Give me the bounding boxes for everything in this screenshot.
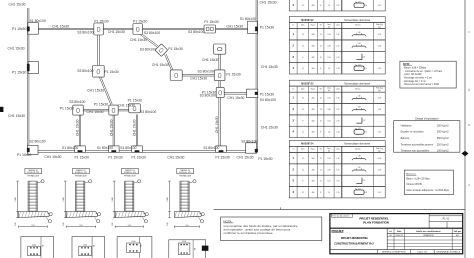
svg-text:FERRAILLAGE: FERRAILLAGE: [75, 175, 88, 178]
svg-text:S2 80x100: S2 80x100: [29, 139, 45, 143]
svg-text:1.90: 1.90: [327, 34, 330, 36]
svg-text:P1 15x30: P1 15x30: [260, 93, 274, 97]
svg-text:P1 15x30: P1 15x30: [60, 106, 74, 110]
svg-text:Nomenclature des barres: Nomenclature des barres: [344, 143, 371, 146]
svg-text:400: 400: [312, 34, 315, 36]
svg-text:2.00: 2.00: [79, 225, 82, 227]
svg-text:DESSINE A L'ECHELLE: DESSINE A L'ECHELLE: [437, 251, 461, 254]
svg-text:Espac.: Espac.: [311, 88, 316, 90]
svg-text:P1 15x30: P1 15x30: [12, 27, 26, 31]
svg-text:2.00: 2.00: [15, 222, 17, 225]
svg-text:0.70: 0.70: [336, 57, 339, 59]
svg-text:CH1 15x30: CH1 15x30: [130, 38, 147, 42]
svg-text:1.90: 1.90: [327, 98, 330, 100]
svg-text:Escalier et circulation: Escalier et circulation: [401, 131, 425, 134]
svg-text:0.18: 0.18: [378, 158, 381, 160]
svg-text:CH1 15x30: CH1 15x30: [152, 63, 169, 67]
svg-text:Poids (kg): Poids (kg): [376, 148, 383, 150]
svg-text:CH1 15x30: CH1 15x30: [133, 119, 137, 136]
svg-text:12: 12: [302, 45, 304, 47]
svg-text:Espac.: Espac.: [311, 149, 316, 151]
svg-text:Poids (kg): Poids (kg): [376, 24, 383, 26]
svg-text:1.20: 1.20: [358, 107, 361, 109]
svg-text:1.86: 1.86: [327, 45, 330, 47]
svg-text:8: 8: [320, 5, 321, 7]
svg-text:400: 400: [312, 57, 315, 59]
svg-text:P1 15x30: P1 15x30: [204, 20, 218, 24]
svg-text:12: 12: [320, 45, 322, 47]
svg-text:1.86: 1.86: [327, 109, 330, 111]
svg-text:Diam.: Diam.: [301, 88, 306, 90]
svg-text:400: 400: [312, 68, 315, 70]
svg-text:PLAN FONDATION: PLAN FONDATION: [363, 220, 390, 224]
svg-text:Acier a haute adherence : fe=4: Acier a haute adherence : fe=400 Mpa: [406, 189, 449, 192]
svg-text:Long.: Long.: [327, 88, 331, 90]
svg-text:S3 80x100: S3 80x100: [188, 30, 204, 34]
svg-text:1.86: 1.86: [327, 169, 330, 171]
svg-text:0.10: 0.10: [364, 68, 367, 70]
svg-text:MASSIF S2: MASSIF S2: [301, 19, 314, 22]
svg-text:Long.: Long.: [327, 24, 331, 26]
svg-text:Balcons: Balcons: [401, 137, 410, 140]
svg-text:P1 15x30: P1 15x30: [215, 155, 229, 159]
svg-text:P1 15x30: P1 15x30: [94, 20, 108, 24]
svg-text:0.25: 0.25: [358, 189, 361, 191]
svg-text:L(m): L(m): [336, 25, 340, 27]
svg-text:CH1 15x30: CH1 15x30: [227, 96, 244, 100]
svg-text:1.30: 1.30: [358, 156, 361, 158]
svg-text:CH1 15x30: CH1 15x30: [8, 114, 25, 118]
svg-text:P1 15x30: P1 15x30: [108, 155, 122, 159]
svg-text:Charge d'exploitation: Charge d'exploitation: [415, 117, 439, 120]
svg-text:Habitation: Habitation: [401, 124, 413, 127]
svg-text:400: 400: [312, 132, 315, 134]
svg-text:Schema: Schema: [355, 25, 361, 27]
svg-text:150 Kg/m2: 150 Kg/m2: [437, 124, 449, 127]
svg-text:Schema: Schema: [355, 88, 361, 90]
svg-text:80: 80: [42, 245, 44, 247]
svg-text:S3 80x100: S3 80x100: [140, 48, 156, 52]
svg-text:CH1 15x30: CH1 15x30: [76, 119, 80, 136]
svg-text:8: 8: [320, 192, 321, 194]
svg-text:FERRAILLAGE: FERRAILLAGE: [27, 175, 40, 178]
svg-text:0.15: 0.15: [378, 192, 381, 194]
svg-text:CH1 15x30: CH1 15x30: [109, 119, 113, 136]
svg-text:1.50: 1.50: [327, 120, 330, 122]
svg-text:1.10: 1.10: [336, 5, 339, 7]
svg-text:DESSIN & CONCEPTION:: DESSIN & CONCEPTION:: [382, 252, 406, 254]
svg-text:8: 8: [302, 57, 303, 59]
svg-text:12: 12: [320, 169, 322, 171]
svg-text:0.70: 0.70: [362, 180, 365, 182]
svg-text:C.A.O.T.D.: C.A.O.T.D.: [417, 251, 428, 254]
svg-text:15x30: 15x30: [131, 241, 135, 243]
svg-text:15x30: 15x30: [83, 244, 87, 246]
svg-text:400: 400: [312, 109, 315, 111]
svg-text:12: 12: [320, 109, 322, 111]
svg-text:S1 80x100: S1 80x100: [97, 146, 113, 150]
svg-text:L(m): L(m): [336, 149, 340, 151]
svg-text:P1 15x30: P1 15x30: [260, 26, 274, 30]
svg-text:S3 80x100: S3 80x100: [140, 110, 156, 114]
svg-text:1.10: 1.10: [336, 132, 339, 134]
svg-text:S4 80x100: S4 80x100: [260, 98, 276, 102]
svg-text:250 Kg/m2: 250 Kg/m2: [437, 131, 449, 134]
svg-text:L(m): L(m): [336, 88, 340, 90]
svg-text:15: 15: [320, 120, 322, 122]
svg-text:Ciment CPJ45: Ciment CPJ45: [406, 183, 422, 186]
svg-text:0.18: 0.18: [378, 169, 381, 171]
svg-text:S3 80x100: S3 80x100: [77, 69, 93, 73]
svg-text:2.00: 2.00: [185, 225, 188, 227]
svg-text:8: 8: [320, 132, 321, 134]
svg-text:P1 15x30: P1 15x30: [17, 153, 31, 157]
svg-text:S3 80x100: S3 80x100: [77, 30, 93, 34]
svg-text:M.L: M.L: [456, 235, 459, 237]
svg-text:CH1 15x30: CH1 15x30: [44, 155, 61, 159]
svg-text:0.18: 0.18: [378, 45, 381, 47]
svg-text:Nb: Nb: [320, 88, 322, 90]
svg-text:Libelle des modifications: Libelle des modifications: [416, 230, 442, 233]
svg-text:8: 8: [302, 120, 303, 122]
svg-text:1.20: 1.20: [358, 167, 361, 169]
svg-text:P1 15x30: P1 15x30: [258, 157, 272, 161]
svg-text:N: N: [293, 88, 294, 90]
svg-text:CH1 15x30: CH1 15x30: [167, 155, 184, 159]
svg-text:80: 80: [141, 245, 143, 247]
svg-text:2.00: 2.00: [31, 225, 34, 227]
svg-text:400: 400: [312, 169, 315, 171]
svg-text:MASSIF S3: MASSIF S3: [301, 82, 314, 85]
svg-text:2.00: 2.00: [112, 222, 114, 225]
svg-text:-Enrobage semelles = 5 cm: -Enrobage semelles = 5 cm: [404, 77, 432, 80]
svg-text:400: 400: [312, 45, 315, 47]
svg-text:S3 80x100: S3 80x100: [69, 100, 85, 104]
svg-text:1.20: 1.20: [336, 169, 339, 171]
svg-text:0.70: 0.70: [362, 56, 365, 58]
svg-text:S1 80x100: S1 80x100: [62, 146, 78, 150]
svg-text:confirmer le sol d'assise prec: confirmer le sol d'assise preconisee.: [224, 231, 274, 235]
svg-text:Titre du document: Titre du document: [332, 215, 349, 218]
svg-text:8: 8: [302, 181, 303, 183]
svg-text:12: 12: [302, 132, 304, 134]
svg-text:-Recouvrement des barres = 50x: -Recouvrement des barres = 50xD: [404, 83, 440, 86]
svg-text:P1 15x30: P1 15x30: [226, 73, 240, 77]
svg-text:Nomenclature des barres: Nomenclature des barres: [344, 19, 371, 22]
svg-text:12: 12: [320, 98, 322, 100]
svg-text:CH1 15x30: CH1 15x30: [108, 30, 125, 34]
svg-text:1.50: 1.50: [327, 181, 330, 183]
svg-text:1.20: 1.20: [358, 43, 361, 45]
svg-text:Espac.: Espac.: [311, 25, 316, 27]
svg-text:MASSIF S4: MASSIF S4: [301, 143, 314, 146]
svg-text:S3 80x100: S3 80x100: [200, 94, 216, 98]
svg-text:Fait par: Fait par: [454, 230, 461, 233]
svg-text:PL: 01: PL: 01: [443, 219, 450, 221]
svg-text:0.18: 0.18: [378, 98, 381, 100]
svg-text:1.20: 1.20: [336, 45, 339, 47]
svg-text:400: 400: [312, 158, 315, 160]
svg-text:-Enrobage fits = 3 cm: -Enrobage fits = 3 cm: [404, 80, 426, 83]
svg-text:ECHELLE: 1/20: ECHELLE: 1/20: [179, 172, 191, 174]
svg-text:S3 80x100: S3 80x100: [198, 69, 214, 73]
svg-text:CH1 15x30: CH1 15x30: [9, 3, 26, 7]
svg-text:P1 15x30: P1 15x30: [75, 155, 89, 159]
svg-text:400: 400: [312, 192, 315, 194]
svg-text:CH1 15x30: CH1 15x30: [190, 76, 207, 80]
svg-text:Beton : fc28= 25 Mpa: Beton : fc28= 25 Mpa: [406, 178, 430, 181]
svg-text:400: 400: [312, 98, 315, 100]
svg-text:Terrasses accessibles privees: Terrasses accessibles privees: [401, 143, 434, 146]
svg-text:CH1 15x30: CH1 15x30: [52, 25, 69, 29]
svg-text:00: 00: [390, 235, 392, 237]
svg-text:12: 12: [302, 5, 304, 7]
svg-text:1.50: 1.50: [327, 57, 330, 59]
svg-text:1.90: 1.90: [327, 158, 330, 160]
svg-text:S3 80x100: S3 80x100: [144, 31, 160, 35]
svg-text:S1 80x100: S1 80x100: [240, 17, 256, 21]
svg-text:80: 80: [195, 248, 197, 250]
svg-text:P1 15x30: P1 15x30: [132, 155, 146, 159]
svg-text:ECHELLE: 1/20: ECHELLE: 1/20: [124, 172, 136, 174]
svg-text:N: N: [293, 25, 294, 27]
svg-text:1.30: 1.30: [336, 34, 339, 36]
svg-text:Diam.: Diam.: [301, 149, 306, 151]
svg-text:Long.: Long.: [327, 148, 331, 150]
svg-text:1.30: 1.30: [336, 98, 339, 100]
svg-text:P1 15x30: P1 15x30: [133, 20, 147, 24]
svg-text:N: N: [293, 149, 294, 151]
svg-text:1.4: 1.4: [328, 132, 330, 134]
svg-text:1.900: 1.900: [112, 197, 114, 201]
svg-text:0.25: 0.25: [358, 128, 361, 130]
svg-text:CH1 15x30: CH1 15x30: [8, 47, 25, 51]
svg-text:0.15: 0.15: [378, 68, 381, 70]
svg-text:12: 12: [302, 34, 304, 36]
svg-text:P1 15x30: P1 15x30: [128, 99, 142, 103]
svg-text:ECHELLE: 1/20: ECHELLE: 1/20: [75, 172, 87, 174]
svg-text:CH1 15x30: CH1 15x30: [261, 65, 278, 69]
svg-text:P1 15x30: P1 15x30: [168, 47, 182, 51]
svg-text:2.00: 2.00: [128, 225, 131, 227]
svg-text:-Acier: HA Fe400: -Acier: HA Fe400: [404, 73, 422, 76]
svg-text:15: 15: [320, 181, 322, 183]
svg-text:S1 80x100: S1 80x100: [203, 146, 219, 150]
svg-text:CH1 15x30: CH1 15x30: [87, 110, 104, 114]
svg-text:P1 15x30: P1 15x30: [94, 103, 108, 107]
svg-text:Nb: Nb: [320, 25, 322, 27]
svg-text:1.4: 1.4: [328, 5, 330, 7]
svg-text:12: 12: [320, 158, 322, 160]
svg-text:S1 80x100: S1 80x100: [120, 146, 136, 150]
svg-text:400: 400: [312, 5, 315, 7]
svg-text:1.900: 1.900: [63, 197, 65, 201]
svg-text:CREATION: CREATION: [423, 234, 434, 237]
svg-text:S2 80x100: S2 80x100: [241, 140, 257, 144]
svg-text:8: 8: [320, 68, 321, 70]
svg-text:Schema: Schema: [355, 149, 361, 151]
svg-text:1.10: 1.10: [336, 192, 339, 194]
svg-text:0.15: 0.15: [378, 5, 381, 7]
svg-text:CONSTRUCTION BATIMENT R+2: CONSTRUCTION BATIMENT R+2: [334, 242, 374, 246]
svg-text:-Beton: fc28 = 25Mpa: -Beton: fc28 = 25Mpa: [404, 67, 427, 70]
svg-text:80: 80: [94, 245, 96, 247]
svg-text:0.10: 0.10: [364, 132, 367, 134]
svg-text:CH1 15x30: CH1 15x30: [87, 88, 104, 92]
svg-text:400: 400: [312, 120, 315, 122]
svg-text:C: C: [469, 184, 471, 187]
svg-text:01-02-22: 01-02-22: [395, 235, 403, 237]
svg-text:12: 12: [302, 98, 304, 100]
svg-text:ECHELLE: 1/20: ECHELLE: 1/20: [27, 172, 39, 174]
svg-text:12: 12: [302, 68, 304, 70]
svg-text:2.00: 2.00: [167, 222, 169, 225]
svg-text:400: 400: [312, 181, 315, 183]
svg-text:15x30: 15x30: [32, 244, 36, 246]
svg-text:12: 12: [320, 34, 322, 36]
svg-text:12: 12: [302, 169, 304, 171]
svg-text:Nb: Nb: [320, 149, 322, 151]
svg-text:350 Kg/m2: 350 Kg/m2: [437, 137, 449, 140]
svg-text:CH1 15x30: CH1 15x30: [237, 155, 254, 159]
svg-text:P1 15x30: P1 15x30: [104, 70, 118, 74]
svg-text:Nomenclature des barres: Nomenclature des barres: [344, 82, 371, 85]
svg-text:0.70: 0.70: [362, 120, 365, 122]
svg-text:1.30: 1.30: [358, 32, 361, 34]
svg-text:0.70: 0.70: [336, 181, 339, 183]
svg-text:15x30: 15x30: [182, 241, 186, 243]
svg-text:0.10: 0.10: [364, 5, 367, 7]
svg-text:0.15: 0.15: [378, 132, 381, 134]
svg-text:0.18: 0.18: [378, 109, 381, 111]
svg-text:Poids (kg): Poids (kg): [376, 88, 383, 90]
svg-text:1.4: 1.4: [328, 68, 330, 70]
svg-text:1.10: 1.10: [336, 68, 339, 70]
svg-text:CH1 15x30: CH1 15x30: [226, 24, 243, 28]
svg-text:Diam.: Diam.: [301, 25, 306, 27]
svg-text:0.10: 0.10: [364, 192, 367, 194]
svg-text:15: 15: [320, 57, 322, 59]
svg-text:2.00: 2.00: [63, 222, 65, 225]
svg-text:12: 12: [302, 192, 304, 194]
svg-text:1.900: 1.900: [15, 197, 17, 201]
svg-text:CH1 15x30: CH1 15x30: [261, 125, 278, 129]
svg-text:P1 15x30: P1 15x30: [12, 70, 26, 74]
svg-text:- Contrainte du sol : Qadm = 1: - Contrainte du sol : Qadm = 1.8 bars: [404, 70, 443, 73]
svg-text:PROJET RESIDENTIEL: PROJET RESIDENTIEL: [341, 237, 369, 240]
svg-text:CH1 15x30: CH1 15x30: [202, 58, 219, 62]
svg-text:0.25: 0.25: [358, 65, 361, 67]
svg-text:1.30: 1.30: [358, 95, 361, 97]
svg-text:Ind.: Ind.: [389, 231, 393, 233]
svg-text:CH1 15x30: CH1 15x30: [260, 1, 277, 5]
svg-text:0.18: 0.18: [378, 34, 381, 36]
svg-text:Terrasses non accessibles: Terrasses non accessibles: [401, 150, 430, 153]
svg-text:FERRAILLAGE: FERRAILLAGE: [179, 175, 192, 178]
svg-text:100 Kg/m2: 100 Kg/m2: [437, 150, 449, 153]
svg-text:D: D: [469, 124, 471, 127]
svg-text:12: 12: [302, 158, 304, 160]
svg-text:150 Kg/m2: 150 Kg/m2: [437, 143, 449, 146]
svg-text:1.900: 1.900: [167, 197, 169, 201]
svg-text:0.25: 0.25: [358, 2, 361, 4]
svg-text:0.70: 0.70: [336, 120, 339, 122]
svg-text:CH1 15x30: CH1 15x30: [118, 103, 135, 107]
svg-text:12: 12: [302, 109, 304, 111]
svg-text:S1 80x100: S1 80x100: [30, 19, 46, 23]
svg-text:1.4: 1.4: [328, 192, 330, 194]
svg-text:1.30: 1.30: [336, 158, 339, 160]
svg-text:CH1 15x30: CH1 15x30: [215, 116, 219, 133]
svg-text:FERRAILLAGE: FERRAILLAGE: [124, 175, 137, 178]
svg-text:1.20: 1.20: [336, 109, 339, 111]
